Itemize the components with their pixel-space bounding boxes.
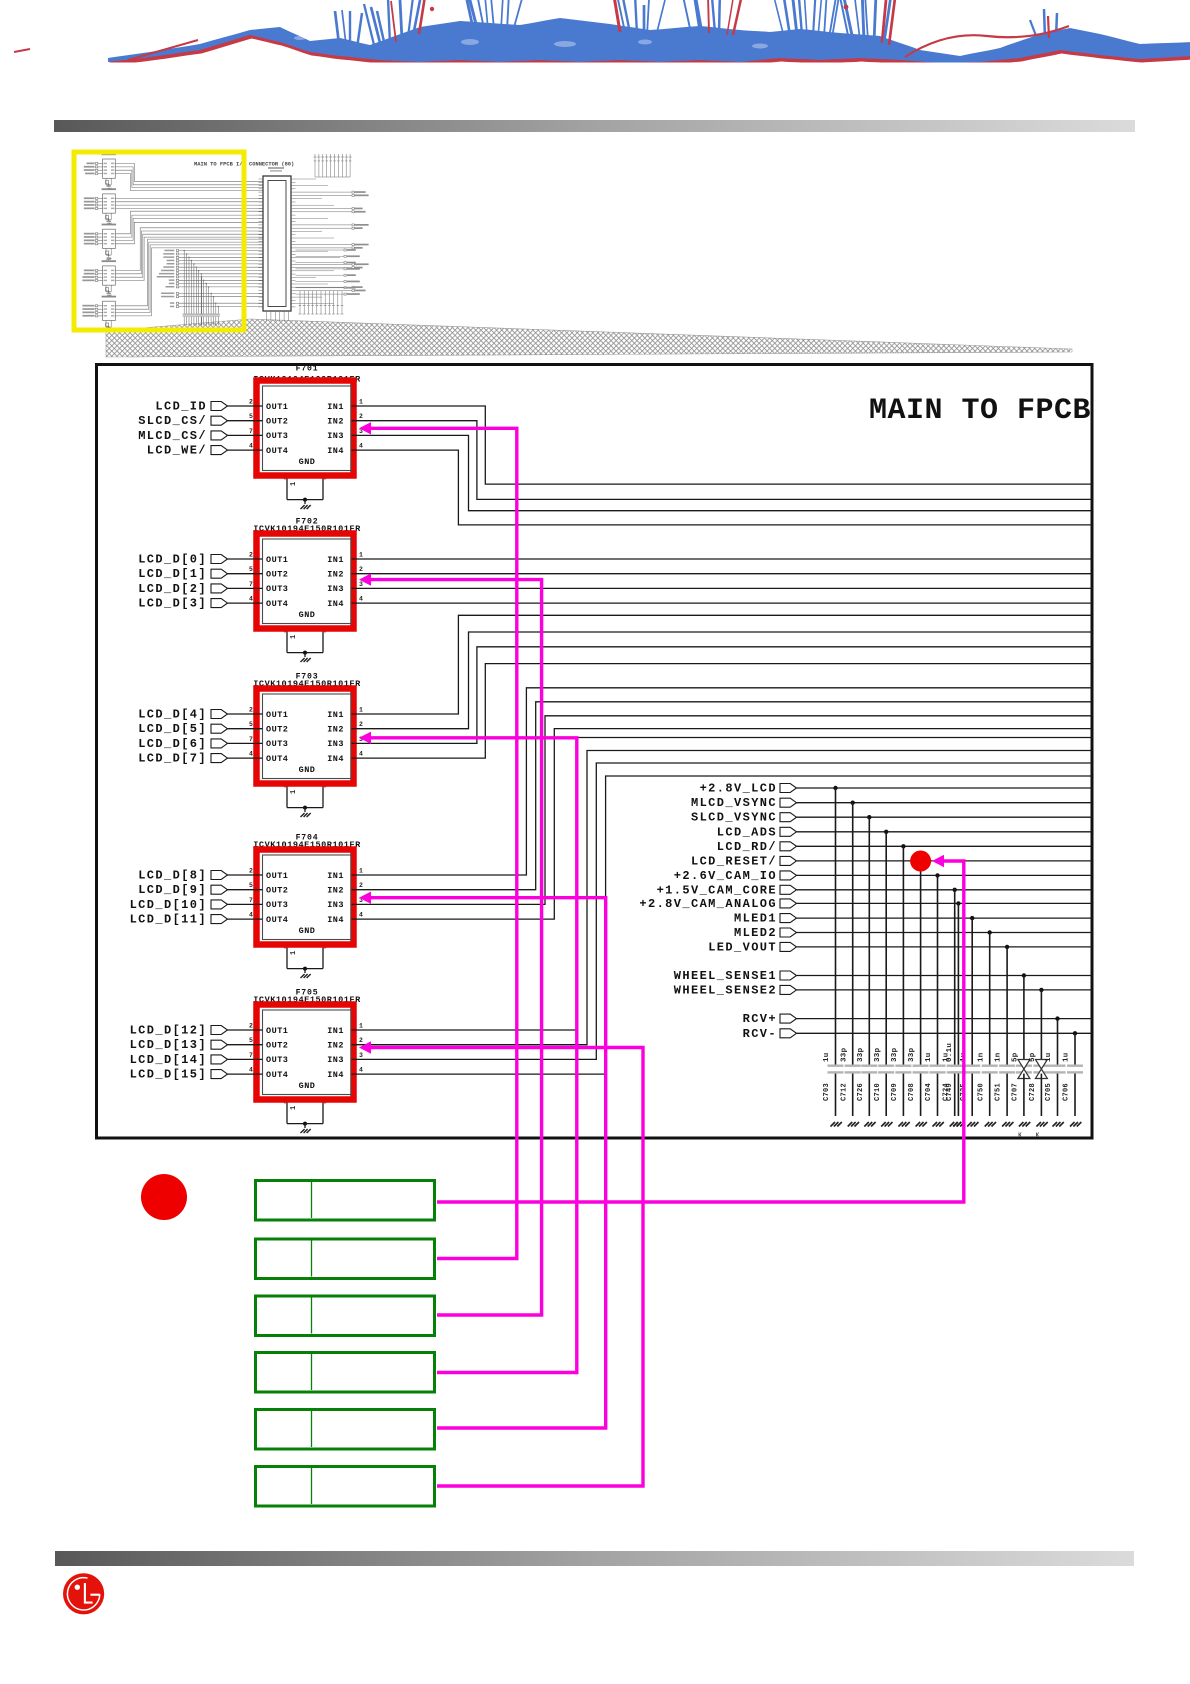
svg-text:33p: 33p xyxy=(840,1047,848,1062)
svg-text:0.1u: 0.1u xyxy=(946,1043,954,1062)
svg-text:WHEEL_SENSE2: WHEEL_SENSE2 xyxy=(674,983,777,997)
svg-text:C712: C712 xyxy=(840,1083,848,1101)
svg-text:IN1: IN1 xyxy=(327,871,344,881)
svg-text:K: K xyxy=(1036,1132,1040,1139)
svg-text:1n: 1n xyxy=(995,1052,1003,1062)
svg-text:OUT4: OUT4 xyxy=(266,599,288,609)
svg-text:IN1: IN1 xyxy=(327,402,344,412)
svg-text:+2.6V_CAM_IO: +2.6V_CAM_IO xyxy=(674,869,777,883)
svg-text:33p: 33p xyxy=(908,1047,916,1062)
svg-text:OUT2: OUT2 xyxy=(266,886,288,896)
svg-text:LCD_D[13]: LCD_D[13] xyxy=(130,1038,207,1052)
svg-text:IN2: IN2 xyxy=(327,417,344,427)
svg-text:GND: GND xyxy=(299,610,316,620)
svg-text:LCD_D[3]: LCD_D[3] xyxy=(138,597,207,611)
svg-text:IN4: IN4 xyxy=(327,599,344,609)
svg-text:LCD_RD/: LCD_RD/ xyxy=(717,840,777,854)
svg-text:1: 1 xyxy=(290,634,298,639)
svg-text:LCD_D[10]: LCD_D[10] xyxy=(130,898,207,912)
svg-text:IN3: IN3 xyxy=(327,739,344,749)
svg-text:LCD_D[8]: LCD_D[8] xyxy=(138,869,207,883)
svg-text:GND: GND xyxy=(299,926,316,936)
svg-text:2: 2 xyxy=(249,868,253,875)
svg-text:1: 1 xyxy=(359,552,363,559)
svg-text:LCD_D[15]: LCD_D[15] xyxy=(130,1068,207,1082)
svg-text:LCD_D[5]: LCD_D[5] xyxy=(138,722,207,736)
svg-text:1: 1 xyxy=(290,950,298,955)
svg-text:LCD_D[14]: LCD_D[14] xyxy=(130,1053,207,1067)
svg-text:LCD_ADS: LCD_ADS xyxy=(717,825,777,839)
svg-text:SLCD_CS/: SLCD_CS/ xyxy=(138,414,207,428)
svg-text:LCD_D[12]: LCD_D[12] xyxy=(130,1024,207,1038)
svg-text:1: 1 xyxy=(359,868,363,875)
svg-text:GND: GND xyxy=(299,457,316,467)
svg-text:5: 5 xyxy=(249,882,253,889)
svg-text:4: 4 xyxy=(249,912,253,919)
svg-text:2: 2 xyxy=(359,1037,363,1044)
svg-text:C707: C707 xyxy=(1012,1083,1020,1101)
svg-text:C709: C709 xyxy=(891,1083,899,1101)
svg-text:OUT3: OUT3 xyxy=(266,1055,288,1065)
svg-text:OUT3: OUT3 xyxy=(266,584,288,594)
svg-text:4: 4 xyxy=(359,443,363,450)
svg-text:LCD_D[2]: LCD_D[2] xyxy=(138,582,207,596)
svg-text:+2.8V_CAM_ANALOG: +2.8V_CAM_ANALOG xyxy=(639,897,777,911)
svg-text:OUT3: OUT3 xyxy=(266,431,288,441)
svg-text:IN2: IN2 xyxy=(327,570,344,580)
svg-text:1: 1 xyxy=(359,399,363,406)
svg-text:IN4: IN4 xyxy=(327,1070,344,1080)
svg-text:4: 4 xyxy=(359,596,363,603)
svg-text:LCD_D[1]: LCD_D[1] xyxy=(138,567,207,581)
svg-text:C706: C706 xyxy=(1063,1083,1071,1101)
svg-text:4: 4 xyxy=(249,443,253,450)
svg-text:5: 5 xyxy=(249,1037,253,1044)
svg-text:7: 7 xyxy=(249,428,253,435)
svg-text:LCD_D[6]: LCD_D[6] xyxy=(138,737,207,751)
svg-text:MLCD_VSYNC: MLCD_VSYNC xyxy=(691,796,777,810)
svg-text:LED_VOUT: LED_VOUT xyxy=(708,940,777,954)
svg-text:OUT3: OUT3 xyxy=(266,739,288,749)
svg-text:GND: GND xyxy=(299,765,316,775)
svg-text:5p: 5p xyxy=(1029,1052,1037,1062)
svg-text:C749: C749 xyxy=(946,1083,954,1101)
svg-text:LCD_D[7]: LCD_D[7] xyxy=(138,752,207,766)
svg-text:IN4: IN4 xyxy=(327,446,344,456)
svg-text:C726: C726 xyxy=(857,1083,865,1101)
svg-text:OUT2: OUT2 xyxy=(266,417,288,427)
svg-text:2: 2 xyxy=(359,566,363,573)
svg-text:C708: C708 xyxy=(908,1083,916,1101)
svg-text:IN4: IN4 xyxy=(327,915,344,925)
svg-text:OUT1: OUT1 xyxy=(266,555,288,565)
svg-text:OUT4: OUT4 xyxy=(266,754,288,764)
svg-text:5: 5 xyxy=(249,413,253,420)
svg-text:K: K xyxy=(1018,1132,1022,1139)
svg-text:OUT1: OUT1 xyxy=(266,1026,288,1036)
svg-text:C703: C703 xyxy=(823,1083,831,1101)
svg-text:2: 2 xyxy=(249,399,253,406)
svg-text:LCD_WE/: LCD_WE/ xyxy=(147,444,207,458)
svg-text:1: 1 xyxy=(359,1023,363,1030)
svg-text:5: 5 xyxy=(249,566,253,573)
svg-text:+2.8V_LCD: +2.8V_LCD xyxy=(700,782,777,796)
svg-text:RCV-: RCV- xyxy=(743,1027,777,1041)
svg-text:C710: C710 xyxy=(874,1083,882,1101)
svg-text:MAIN TO FPCB: MAIN TO FPCB xyxy=(869,394,1091,428)
svg-text:1n: 1n xyxy=(977,1052,985,1062)
svg-text:1u: 1u xyxy=(1045,1052,1053,1062)
svg-text:5p: 5p xyxy=(1012,1052,1020,1062)
svg-text:1u: 1u xyxy=(823,1052,831,1062)
svg-text:RCV+: RCV+ xyxy=(743,1012,777,1026)
svg-text:LCD_D[0]: LCD_D[0] xyxy=(138,553,207,567)
svg-text:OUT1: OUT1 xyxy=(266,710,288,720)
svg-text:LCD_D[11]: LCD_D[11] xyxy=(130,913,207,927)
svg-text:4: 4 xyxy=(359,751,363,758)
svg-text:2: 2 xyxy=(249,1023,253,1030)
svg-text:OUT4: OUT4 xyxy=(266,446,288,456)
svg-text:3: 3 xyxy=(359,581,363,588)
svg-text:3: 3 xyxy=(359,1052,363,1059)
svg-text:7: 7 xyxy=(249,897,253,904)
svg-text:SLCD_VSYNC: SLCD_VSYNC xyxy=(691,811,777,825)
svg-text:IN4: IN4 xyxy=(327,754,344,764)
svg-text:7: 7 xyxy=(249,1052,253,1059)
svg-text:IN3: IN3 xyxy=(327,584,344,594)
svg-text:LCD_D[4]: LCD_D[4] xyxy=(138,708,207,722)
svg-text:4: 4 xyxy=(249,1067,253,1074)
svg-text:OUT2: OUT2 xyxy=(266,1041,288,1051)
svg-text:C750: C750 xyxy=(977,1083,985,1101)
svg-text:GND: GND xyxy=(299,1081,316,1091)
svg-text:IN2: IN2 xyxy=(327,1041,344,1051)
svg-text:1: 1 xyxy=(290,789,298,794)
svg-text:4: 4 xyxy=(359,912,363,919)
svg-text:5: 5 xyxy=(249,721,253,728)
svg-text:IN1: IN1 xyxy=(327,555,344,565)
svg-text:4: 4 xyxy=(249,596,253,603)
svg-text:OUT4: OUT4 xyxy=(266,1070,288,1080)
svg-text:2: 2 xyxy=(359,721,363,728)
svg-text:2: 2 xyxy=(249,707,253,714)
svg-text:OUT2: OUT2 xyxy=(266,570,288,580)
svg-text:33p: 33p xyxy=(857,1047,865,1062)
svg-text:33p: 33p xyxy=(874,1047,882,1062)
svg-text:OUT1: OUT1 xyxy=(266,871,288,881)
svg-text:4: 4 xyxy=(249,751,253,758)
svg-text:C705: C705 xyxy=(1045,1083,1053,1101)
svg-text:C728: C728 xyxy=(1029,1083,1037,1101)
svg-text:7: 7 xyxy=(249,581,253,588)
svg-text:1u: 1u xyxy=(925,1052,933,1062)
svg-text:LCD_ID: LCD_ID xyxy=(155,400,207,414)
svg-text:MLCD_CS/: MLCD_CS/ xyxy=(138,429,207,443)
svg-text:MLED1: MLED1 xyxy=(734,912,777,926)
svg-text:1: 1 xyxy=(290,1105,298,1110)
svg-text:MLED2: MLED2 xyxy=(734,926,777,940)
svg-text:IN2: IN2 xyxy=(327,725,344,735)
svg-text:1u: 1u xyxy=(1063,1052,1071,1062)
svg-text:+1.5V_CAM_CORE: +1.5V_CAM_CORE xyxy=(657,883,777,897)
svg-text:2: 2 xyxy=(359,882,363,889)
svg-text:F701: F701 xyxy=(296,365,319,374)
svg-text:OUT1: OUT1 xyxy=(266,402,288,412)
svg-text:OUT4: OUT4 xyxy=(266,915,288,925)
svg-text:IN3: IN3 xyxy=(327,431,344,441)
svg-text:2: 2 xyxy=(359,413,363,420)
svg-text:IN2: IN2 xyxy=(327,886,344,896)
svg-text:LCD_D[9]: LCD_D[9] xyxy=(138,883,207,897)
svg-text:1: 1 xyxy=(359,707,363,714)
svg-text:OUT2: OUT2 xyxy=(266,725,288,735)
svg-text:IN3: IN3 xyxy=(327,1055,344,1065)
svg-text:1: 1 xyxy=(290,481,298,486)
svg-text:LCD_RESET/: LCD_RESET/ xyxy=(691,854,777,868)
svg-text:C751: C751 xyxy=(995,1083,1003,1101)
svg-text:IN3: IN3 xyxy=(327,900,344,910)
svg-text:OUT3: OUT3 xyxy=(266,900,288,910)
svg-text:C704: C704 xyxy=(925,1083,933,1101)
svg-text:4: 4 xyxy=(359,1067,363,1074)
svg-text:7: 7 xyxy=(249,736,253,743)
svg-text:33p: 33p xyxy=(891,1047,899,1062)
svg-text:IN1: IN1 xyxy=(327,710,344,720)
svg-text:2: 2 xyxy=(249,552,253,559)
svg-text:WHEEL_SENSE1: WHEEL_SENSE1 xyxy=(674,969,777,983)
svg-text:IN1: IN1 xyxy=(327,1026,344,1036)
